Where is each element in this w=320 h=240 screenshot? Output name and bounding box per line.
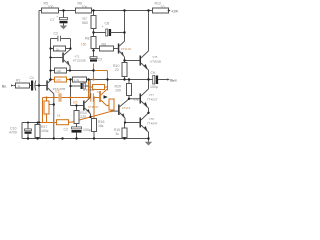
svg-text:Вых: Вых bbox=[170, 78, 177, 82]
svg-text:100: 100 bbox=[48, 5, 54, 9]
terminal IN bbox=[2, 84, 14, 88]
wire Q3 collector to rails bbox=[124, 11, 126, 42]
resistor R(bottom of Q2) bbox=[51, 68, 71, 73]
transistor TA bbox=[71, 88, 95, 117]
svg-text:R8: R8 bbox=[85, 37, 90, 41]
orange feedback row y97 bbox=[43, 97, 100, 99]
resistor R9 1k on rail bbox=[73, 77, 89, 82]
wire y104 stub bbox=[49, 104, 54, 106]
capacitor C2 bbox=[64, 127, 91, 139]
svg-text:КТ315: КТ315 bbox=[122, 106, 131, 110]
capacitor C1 bbox=[30, 76, 40, 91]
svg-text:ГТ404Г: ГТ404Г bbox=[147, 122, 158, 126]
terminal +24V bbox=[168, 8, 179, 13]
orange capacitor Ca bbox=[55, 90, 61, 102]
wire Q4 emitter down bbox=[148, 70, 150, 80]
svg-text:10к: 10к bbox=[82, 5, 88, 9]
RC block bottom-left bbox=[22, 123, 41, 139]
svg-text:+24: +24 bbox=[171, 8, 179, 13]
capacitor C4 bbox=[71, 83, 89, 89]
svg-text:C1: C1 bbox=[30, 76, 35, 80]
svg-text:VT5: VT5 bbox=[153, 55, 158, 59]
orange vertical x42 bbox=[42, 98, 44, 123]
wire x70 column lower bbox=[70, 80, 72, 106]
resistor RB (QB base to ground) bbox=[114, 123, 127, 139]
resistor R17 bbox=[35, 123, 49, 139]
svg-text:1к: 1к bbox=[57, 114, 61, 118]
svg-text:100: 100 bbox=[115, 89, 121, 93]
wire Q2 emitter row to x93 bbox=[70, 70, 94, 72]
transistor QB bbox=[125, 113, 158, 139]
orange bias x88 v1 + R horizontal bbox=[89, 80, 108, 98]
svg-text:+: + bbox=[102, 25, 104, 29]
svg-text:С2: С2 bbox=[54, 32, 59, 36]
rail OUT y79: orange feedback resistor R bbox=[51, 77, 73, 82]
capacitor C3 bbox=[90, 57, 102, 62]
resistor R8 bbox=[81, 37, 96, 58]
orange resistor vertical x111 bbox=[109, 85, 121, 112]
svg-text:16к: 16к bbox=[98, 124, 104, 128]
svg-text:Вх.: Вх. bbox=[2, 84, 7, 88]
svg-text:КТ3102Б: КТ3102Б bbox=[73, 59, 86, 63]
svg-text:4700: 4700 bbox=[9, 131, 17, 135]
svg-text:10: 10 bbox=[161, 5, 165, 9]
capacitor C2a bbox=[54, 32, 61, 42]
svg-text:C8: C8 bbox=[105, 22, 110, 26]
svg-text:22: 22 bbox=[115, 68, 119, 72]
wire orange link C3 to bias node bbox=[94, 64, 108, 91]
ground at right bbox=[145, 139, 152, 146]
resistor R6 bbox=[76, 2, 92, 14]
svg-text:0,5: 0,5 bbox=[55, 90, 60, 94]
svg-text:150: 150 bbox=[81, 42, 87, 46]
svg-text:VT7: VT7 bbox=[149, 93, 154, 97]
wire Q4 collector up bbox=[148, 11, 150, 51]
wire ground rail bbox=[22, 138, 149, 140]
svg-text:470: 470 bbox=[56, 78, 61, 82]
orange resistor vertical x46 bbox=[44, 98, 49, 123]
transistor QO orange bbox=[88, 89, 109, 109]
svg-text:VT6: VT6 bbox=[134, 98, 139, 102]
svg-text:С7: С7 bbox=[50, 18, 55, 22]
wire OUT rail bbox=[89, 79, 154, 81]
junction dots bbox=[27, 9, 150, 139]
capacitor C9 bbox=[150, 71, 168, 89]
svg-text:1,3к: 1,3к bbox=[74, 78, 80, 82]
resistor R7 bbox=[82, 11, 96, 37]
resistor R14 220 bbox=[74, 106, 87, 128]
transistor Q2 bbox=[51, 49, 86, 70]
capacitor C8 bbox=[102, 22, 125, 37]
resistor R13 bbox=[127, 80, 140, 99]
wire Q3 emitter / R10 bbox=[113, 57, 127, 80]
resistor R12 bbox=[153, 2, 169, 14]
wire second rail y32 bbox=[94, 32, 107, 34]
svg-text:220: 220 bbox=[80, 115, 86, 119]
svg-text:3к: 3к bbox=[116, 132, 120, 136]
svg-text:130: 130 bbox=[56, 69, 61, 73]
svg-text:R9: R9 bbox=[102, 42, 107, 46]
transistor Q4 bbox=[140, 51, 162, 70]
wire Q4 base bbox=[125, 60, 140, 62]
resistor R9h bbox=[94, 42, 114, 51]
capacitor C7 bbox=[50, 11, 68, 26]
wire left vertical from rail to input node to RC row bbox=[38, 11, 40, 123]
svg-text:100к: 100к bbox=[41, 129, 49, 133]
svg-text:ГТ402Г: ГТ402Г bbox=[147, 98, 158, 102]
resistor R16 bbox=[92, 119, 105, 139]
wire top rail bbox=[39, 10, 169, 12]
terminal OUT bbox=[167, 78, 177, 82]
wire x50 column bbox=[50, 39, 52, 80]
svg-text:0,5: 0,5 bbox=[73, 100, 78, 104]
svg-text:C9: C9 bbox=[151, 71, 156, 75]
svg-text:КТ801Б: КТ801Б bbox=[150, 59, 161, 63]
wire TA collector up to rail bbox=[89, 80, 91, 95]
resistor R1 bbox=[14, 79, 32, 88]
ground bbox=[60, 26, 67, 30]
svg-text:VT8: VT8 bbox=[149, 117, 154, 121]
transistor QM2 bbox=[112, 98, 139, 122]
resistor R(2k) bbox=[51, 46, 71, 51]
svg-text:С3: С3 bbox=[98, 58, 103, 62]
transistor Q3 bbox=[114, 41, 132, 56]
svg-text:C2: C2 bbox=[64, 128, 69, 132]
svg-text:100μ: 100μ bbox=[150, 85, 158, 89]
orange vert to R16 bbox=[93, 98, 95, 119]
svg-text:+: + bbox=[56, 15, 58, 19]
wire x70 column upper bbox=[70, 39, 72, 49]
transistor Q1 input bbox=[39, 79, 65, 138]
orange diagonal bbox=[72, 111, 112, 122]
wire Q2 cap row bbox=[51, 38, 71, 40]
svg-text:КТ3102: КТ3102 bbox=[121, 47, 132, 51]
svg-text:R1: R1 bbox=[16, 79, 21, 83]
capacitor C10 bbox=[9, 123, 32, 139]
svg-text:560: 560 bbox=[82, 21, 88, 25]
orange capacitor Cb bbox=[73, 93, 93, 104]
svg-text:100μ: 100μ bbox=[83, 128, 91, 132]
orange row y122 + resistor bbox=[41, 114, 72, 125]
transistor QA bbox=[140, 80, 158, 113]
resistor R5 bbox=[42, 2, 59, 14]
